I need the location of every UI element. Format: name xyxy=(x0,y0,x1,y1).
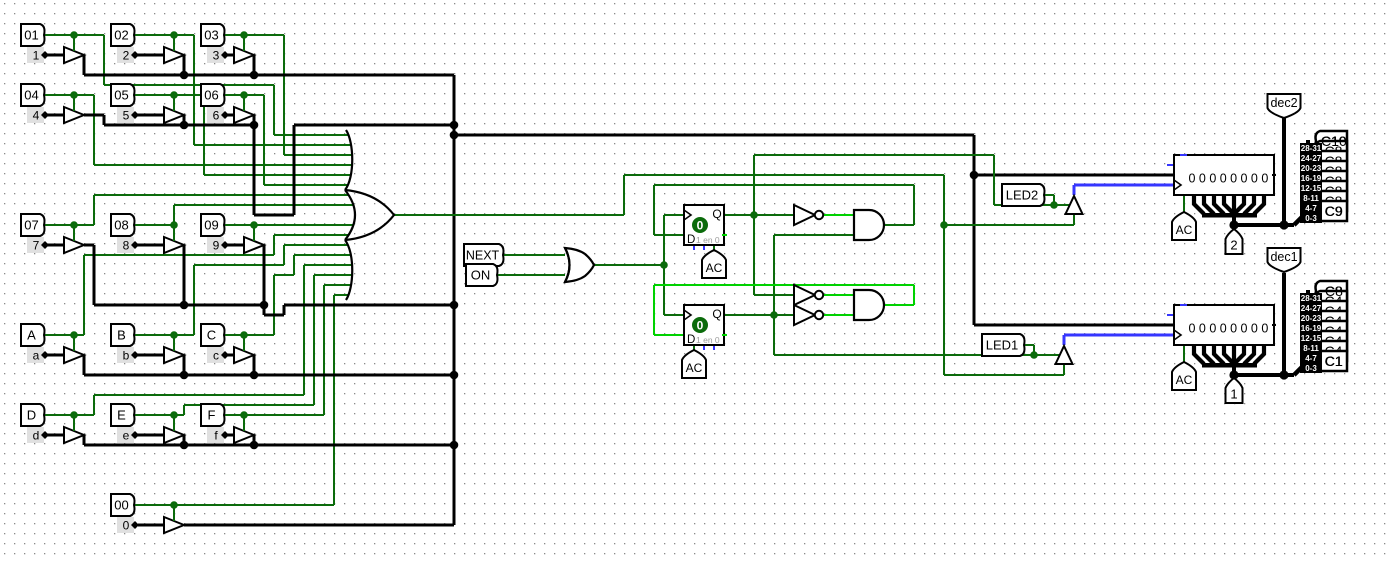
svg-text:d: d xyxy=(33,429,40,443)
svg-text:05: 05 xyxy=(114,88,128,103)
svg-text:D: D xyxy=(687,334,695,346)
svg-text:20-23: 20-23 xyxy=(1301,164,1322,173)
svg-text:08: 08 xyxy=(114,218,128,233)
svg-text:0: 0 xyxy=(1241,322,1248,336)
svg-text:0: 0 xyxy=(1199,322,1206,336)
svg-text:1 en 0: 1 en 0 xyxy=(696,335,720,345)
svg-text:C: C xyxy=(207,328,216,343)
svg-text:e: e xyxy=(123,429,130,443)
svg-text:0: 0 xyxy=(1251,322,1258,336)
svg-text:0-3: 0-3 xyxy=(1305,364,1317,373)
svg-text:AC: AC xyxy=(706,261,723,275)
svg-text:06: 06 xyxy=(204,88,218,103)
svg-text:0: 0 xyxy=(1261,322,1268,336)
svg-text:12-15: 12-15 xyxy=(1301,334,1322,343)
svg-text:00: 00 xyxy=(114,498,128,513)
svg-text:1 en 0: 1 en 0 xyxy=(696,235,720,245)
svg-text:0: 0 xyxy=(1251,172,1258,186)
svg-text:NEXT: NEXT xyxy=(466,249,500,263)
svg-text:0: 0 xyxy=(1241,172,1248,186)
svg-text:0: 0 xyxy=(1199,172,1206,186)
svg-text:24-27: 24-27 xyxy=(1301,154,1322,163)
svg-text:6: 6 xyxy=(213,109,220,123)
svg-text:A: A xyxy=(27,328,36,343)
svg-text:0: 0 xyxy=(123,519,130,533)
svg-text:4-7: 4-7 xyxy=(1305,354,1317,363)
svg-text:02: 02 xyxy=(114,28,128,43)
svg-text:8: 8 xyxy=(123,239,130,253)
svg-text:D: D xyxy=(687,234,695,246)
svg-text:c: c xyxy=(213,349,219,363)
svg-text:2: 2 xyxy=(123,49,130,63)
svg-text:7: 7 xyxy=(33,239,40,253)
svg-text:Q: Q xyxy=(712,207,721,221)
svg-text:04: 04 xyxy=(24,88,38,103)
svg-text:03: 03 xyxy=(204,28,218,43)
svg-text:a: a xyxy=(33,349,40,363)
svg-text:20-23: 20-23 xyxy=(1301,314,1322,323)
svg-text:ON: ON xyxy=(471,268,491,283)
svg-text:0: 0 xyxy=(1189,172,1196,186)
svg-text:0: 0 xyxy=(1220,322,1227,336)
svg-text:28-31: 28-31 xyxy=(1301,144,1322,153)
svg-text:1: 1 xyxy=(1230,387,1237,402)
svg-text:0: 0 xyxy=(1189,322,1196,336)
svg-text:0: 0 xyxy=(1230,322,1237,336)
svg-text:0: 0 xyxy=(1230,172,1237,186)
svg-text:AC: AC xyxy=(686,361,703,375)
svg-text:F: F xyxy=(208,408,216,423)
svg-text:LED1: LED1 xyxy=(986,338,1019,353)
svg-text:07: 07 xyxy=(24,218,38,233)
svg-text:dec2: dec2 xyxy=(1270,96,1297,110)
svg-text:3: 3 xyxy=(213,49,220,63)
svg-text:1: 1 xyxy=(33,49,40,63)
svg-text:D: D xyxy=(27,408,36,423)
svg-text:4-7: 4-7 xyxy=(1305,204,1317,213)
svg-text:01: 01 xyxy=(24,28,38,43)
svg-text:AC: AC xyxy=(1176,223,1193,237)
svg-text:B: B xyxy=(117,328,126,343)
svg-text:8-11: 8-11 xyxy=(1303,344,1319,353)
svg-text:8-11: 8-11 xyxy=(1303,194,1319,203)
svg-text:0: 0 xyxy=(697,219,704,233)
svg-text:LED2: LED2 xyxy=(1006,188,1039,203)
svg-text:C1: C1 xyxy=(1325,353,1343,369)
svg-text:0: 0 xyxy=(1209,172,1216,186)
svg-text:9: 9 xyxy=(213,239,220,253)
svg-text:C10: C10 xyxy=(1321,133,1347,149)
svg-text:C9: C9 xyxy=(1325,203,1343,219)
svg-text:4: 4 xyxy=(33,109,40,123)
svg-text:C8: C8 xyxy=(1325,283,1343,299)
svg-text:Q: Q xyxy=(712,307,721,321)
svg-text:0: 0 xyxy=(1209,322,1216,336)
svg-text:12-15: 12-15 xyxy=(1301,184,1322,193)
svg-text:0: 0 xyxy=(697,319,704,333)
svg-text:16-19: 16-19 xyxy=(1301,174,1322,183)
svg-text:28-31: 28-31 xyxy=(1301,294,1322,303)
svg-text:E: E xyxy=(117,408,126,423)
svg-text:0: 0 xyxy=(1261,172,1268,186)
svg-text:09: 09 xyxy=(204,218,218,233)
svg-text:5: 5 xyxy=(123,109,130,123)
svg-text:dec1: dec1 xyxy=(1270,250,1297,264)
svg-text:16-19: 16-19 xyxy=(1301,324,1322,333)
svg-text:AC: AC xyxy=(1176,373,1193,387)
svg-text:24-27: 24-27 xyxy=(1301,304,1322,313)
svg-text:2: 2 xyxy=(1230,238,1237,253)
svg-text:0-3: 0-3 xyxy=(1305,214,1317,223)
svg-text:b: b xyxy=(123,349,130,363)
svg-text:0: 0 xyxy=(1220,172,1227,186)
